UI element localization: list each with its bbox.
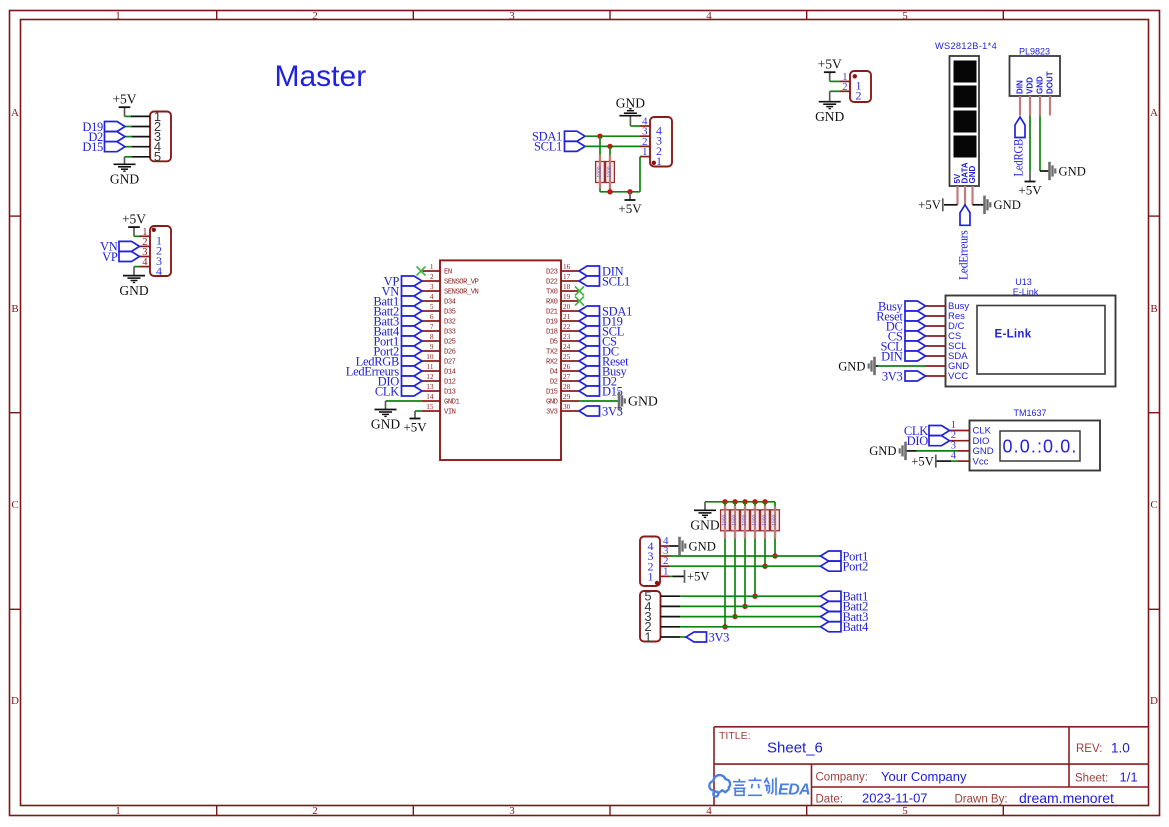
- svg-text:DIN: DIN: [881, 349, 903, 363]
- net label Batt3: [821, 612, 842, 622]
- svg-text:5: 5: [902, 10, 908, 22]
- wire U1 VIN to +5V: [415, 410, 422, 412]
- svg-text:1: 1: [648, 570, 654, 584]
- svg-text:B: B: [11, 303, 18, 315]
- svg-text:+5V: +5V: [818, 57, 842, 72]
- net label SCL (U13): [905, 341, 926, 351]
- power +5V (U1 VIN): [414, 411, 416, 418]
- svg-text:3V3: 3V3: [546, 409, 558, 417]
- svg-text:D18: D18: [546, 329, 558, 337]
- connector P1 5-pin header: [150, 112, 171, 162]
- net label D2 (P1 pin 3): [125, 136, 132, 138]
- power +5V (connector P2 pin 1): [133, 228, 135, 237]
- ground GND (PL9823): [1048, 162, 1051, 180]
- svg-text:A: A: [11, 107, 19, 119]
- svg-text:5: 5: [430, 302, 434, 311]
- net label Port1: [821, 551, 842, 561]
- power +5V (pull-up rail): [629, 192, 631, 200]
- wire +5V rail to P3 pin 1: [639, 157, 641, 192]
- svg-text:D34: D34: [444, 299, 456, 307]
- net label Port1 (U1 left): [402, 336, 423, 346]
- title block: [714, 726, 1149, 728]
- net label Busy (U1 right): [579, 366, 600, 376]
- svg-text:A: A: [1150, 107, 1158, 119]
- svg-text:1: 1: [430, 262, 434, 271]
- svg-text:1000: 1000: [722, 515, 728, 526]
- svg-text:CLK: CLK: [375, 384, 399, 398]
- net label VN (U1 left): [402, 286, 423, 296]
- svg-text:GND: GND: [371, 417, 400, 432]
- resistor R3 1000: [721, 510, 730, 531]
- wire R5 top stub: [744, 502, 746, 506]
- net label Batt3 (U1 left): [402, 316, 423, 326]
- net label DC (U13): [905, 321, 926, 331]
- junction R8: [772, 553, 777, 558]
- power +5V (connector P4 pin 1): [829, 73, 831, 82]
- resistor R6 1000: [751, 510, 760, 531]
- resistor R5 1000: [741, 510, 750, 531]
- net label Batt2: [821, 601, 842, 611]
- svg-text:26: 26: [563, 362, 571, 371]
- svg-text:E-Link: E-Link: [995, 329, 1032, 341]
- net label DIO (TM1637): [929, 436, 950, 446]
- svg-text:1: 1: [644, 629, 651, 644]
- net label DIN (U13): [905, 351, 926, 361]
- svg-text:DIO: DIO: [907, 434, 929, 448]
- svg-text:+5V: +5V: [403, 419, 427, 434]
- svg-text:8: 8: [430, 332, 434, 341]
- ground GND (U13): [873, 357, 876, 375]
- net label VP (U1 left): [402, 276, 423, 286]
- svg-text:D15: D15: [546, 389, 558, 397]
- svg-text:D23: D23: [546, 269, 558, 277]
- net label DC (U1 right): [579, 346, 600, 356]
- net label LedRGB (U1 left): [402, 356, 423, 366]
- wire P5 pin 4 to ground: [670, 545, 679, 547]
- junction R7: [762, 564, 767, 569]
- net label Busy (U13): [905, 301, 926, 311]
- power +5V (P5 pin 1): [684, 570, 686, 583]
- wire TM1637 GND: [907, 450, 917, 452]
- svg-text:1: 1: [642, 146, 648, 158]
- wire R8 bottom to row: [774, 531, 776, 538]
- net label LedErreurs (WS2812B DATA pin): [960, 205, 970, 226]
- svg-text:D22: D22: [546, 279, 558, 287]
- svg-text:Vcc: Vcc: [973, 456, 989, 467]
- svg-text:EDA: EDA: [778, 782, 810, 799]
- net label LedRGB (PL9823 DIN): [1015, 117, 1025, 138]
- resistor R1 1000: [596, 162, 605, 183]
- svg-text:C: C: [1150, 499, 1157, 511]
- svg-text:TITLE:: TITLE:: [719, 730, 751, 742]
- svg-text:Your Company: Your Company: [881, 769, 967, 784]
- wire R1 bottom: [599, 183, 601, 189]
- svg-text:B: B: [1150, 303, 1157, 315]
- wire Port1 (P5 pin 3): [670, 555, 821, 557]
- PL9823 pin stubs: [1019, 96, 1021, 116]
- svg-text:GND: GND: [110, 171, 139, 186]
- svg-text:EN: EN: [444, 269, 452, 277]
- svg-text:D: D: [1150, 695, 1158, 707]
- wire R4 bottom to row: [734, 531, 736, 538]
- wire R3 bottom to row: [724, 531, 726, 538]
- svg-text:14: 14: [426, 392, 434, 401]
- svg-text:VDD: VDD: [1026, 77, 1035, 94]
- svg-text:5: 5: [902, 805, 908, 817]
- svg-text:D: D: [11, 695, 19, 707]
- wire +5V bus (resistor network top): [705, 501, 775, 503]
- svg-text:D19: D19: [546, 319, 558, 327]
- no-connect X on EN pin: [417, 267, 426, 276]
- net label Port2 (U1 left): [402, 346, 423, 356]
- svg-text:Master: Master: [275, 60, 367, 93]
- net label SCL1 (U1 right): [579, 276, 600, 286]
- svg-text:SENSOR_VN: SENSOR_VN: [444, 289, 479, 297]
- wire U1 GND pin29 to ground: [579, 400, 618, 402]
- svg-text:GND: GND: [689, 539, 716, 553]
- net label SDA1 (U1 right): [579, 306, 600, 316]
- svg-text:1000: 1000: [742, 515, 748, 526]
- wire R2 top: [609, 146, 611, 155]
- wire Batt3 (P6 pin 3): [680, 616, 821, 618]
- svg-text:9: 9: [430, 342, 434, 351]
- svg-text:1000: 1000: [597, 166, 603, 177]
- svg-text:GND: GND: [815, 109, 844, 124]
- svg-text:Sheet_6: Sheet_6: [767, 740, 823, 757]
- wire R1 top: [599, 136, 601, 155]
- U1 right pins 16-30: [561, 270, 579, 272]
- svg-text:22: 22: [563, 322, 571, 331]
- junction R2/+5V rail: [607, 189, 612, 194]
- svg-text:4: 4: [142, 257, 148, 268]
- junction bus/R6: [752, 499, 757, 504]
- svg-text:2: 2: [430, 272, 434, 281]
- svg-text:DIN: DIN: [1016, 80, 1025, 94]
- connector P6 5-pin header: [640, 591, 661, 642]
- svg-text:Drawn By:: Drawn By:: [955, 794, 1008, 806]
- svg-text:TX2: TX2: [546, 349, 558, 357]
- wire R4 top stub: [734, 502, 736, 506]
- connector P3 4-pin header: [650, 117, 672, 167]
- svg-text:D2: D2: [550, 379, 558, 387]
- svg-text:2: 2: [842, 82, 847, 93]
- svg-text:30: 30: [563, 402, 571, 411]
- connector P2 4-pin header: [150, 226, 171, 276]
- svg-text:10: 10: [426, 352, 434, 361]
- svg-text:1000: 1000: [607, 166, 613, 177]
- net label D15 (P1 pin 4): [125, 146, 132, 148]
- connector P5 4-pin header: [640, 537, 660, 587]
- svg-text:Date:: Date:: [816, 794, 844, 806]
- wire R7 bottom to row: [764, 531, 766, 538]
- svg-text:1000: 1000: [772, 515, 778, 526]
- resistor R4 1000: [731, 510, 740, 531]
- U1 left pins 1-15: [422, 270, 440, 272]
- wire +5V to P4 pin 1: [830, 80, 840, 82]
- svg-text:+5V: +5V: [687, 570, 710, 584]
- svg-text:GND: GND: [616, 96, 645, 111]
- wire R3 top stub: [724, 502, 726, 506]
- wire P5 pin 1 to +5V: [670, 575, 673, 577]
- resistor R7 1000: [761, 510, 770, 531]
- power +5V (PL9823 VDD): [1029, 171, 1031, 181]
- svg-text:dream.menoret: dream.menoret: [1019, 790, 1114, 806]
- svg-text:U13: U13: [1015, 277, 1032, 287]
- no-connect X on RX0 pin: [575, 297, 584, 306]
- svg-text:1: 1: [115, 805, 121, 817]
- junction bus/R7: [762, 499, 767, 504]
- svg-text:4: 4: [706, 805, 712, 817]
- svg-text:PL9823: PL9823: [1019, 47, 1050, 57]
- svg-text:1000: 1000: [752, 515, 758, 526]
- svg-text:REV:: REV:: [1076, 743, 1102, 755]
- svg-text:GND: GND: [968, 166, 977, 184]
- net label Reset (U1 right): [579, 356, 600, 366]
- svg-text:Sheet:: Sheet:: [1075, 773, 1108, 785]
- power +5V (TM1637 Vcc): [935, 455, 937, 468]
- svg-text:0.0.:0.0.: 0.0.:0.0.: [1003, 437, 1078, 457]
- wire TM1637 Vcc: [937, 460, 952, 462]
- junction bus/R3: [722, 499, 727, 504]
- net label D15 (U1 right): [579, 386, 600, 396]
- svg-text:3: 3: [509, 10, 515, 22]
- svg-text:LedErreurs: LedErreurs: [956, 230, 970, 280]
- net label CLK (TM1637): [929, 426, 950, 436]
- wire Port2 (P5 pin 2): [670, 565, 821, 567]
- net label Port2: [821, 561, 842, 571]
- net label VP (P2 pin 3): [119, 252, 140, 262]
- svg-text:D33: D33: [444, 329, 456, 337]
- wire R6 top stub: [754, 502, 756, 506]
- net label VN (P2 pin 2): [119, 241, 140, 251]
- svg-text:1: 1: [115, 10, 121, 22]
- svg-text:3: 3: [509, 805, 515, 817]
- wire GND to P3 pin 4: [630, 125, 640, 127]
- svg-text:LedRGB: LedRGB: [1011, 139, 1025, 177]
- svg-text:SCL1: SCL1: [602, 274, 630, 288]
- svg-text:21: 21: [563, 312, 571, 321]
- net label D19 (P1 pin 2): [125, 126, 132, 128]
- svg-text:D14: D14: [444, 369, 456, 377]
- display TM1637 body: [970, 421, 1101, 471]
- svg-text:1000: 1000: [762, 515, 768, 526]
- net label Batt1 (U1 left): [402, 296, 423, 306]
- svg-text:+5V: +5V: [1018, 182, 1042, 197]
- logo JLC EDA: [709, 775, 730, 796]
- svg-text:25: 25: [563, 352, 571, 361]
- wire R2 bottom: [609, 183, 611, 189]
- svg-text:C: C: [11, 499, 18, 511]
- display U13 E-Link body: [946, 296, 1116, 387]
- svg-text:GND: GND: [869, 444, 896, 458]
- net label CS (U1 right): [579, 336, 600, 346]
- svg-text:D32: D32: [444, 319, 456, 327]
- svg-text:20: 20: [563, 302, 571, 311]
- wire Batt2 (P6 pin 4): [680, 605, 821, 607]
- svg-text:D26: D26: [444, 349, 456, 357]
- net label Batt2 (U1 left): [402, 306, 423, 316]
- svg-text:12: 12: [426, 372, 434, 381]
- WS2812B pin stubs: [956, 186, 958, 205]
- wire PL9823 VDD to +5V: [1029, 116, 1031, 172]
- svg-text:GND: GND: [994, 198, 1021, 212]
- net label SCL (U1 right): [579, 326, 600, 336]
- wire P1 pin 5 to ground: [125, 156, 133, 158]
- no-connect X on TX0 pin: [575, 287, 584, 296]
- svg-text:D15: D15: [82, 140, 103, 154]
- net label Batt4: [821, 622, 842, 632]
- svg-text:18: 18: [563, 282, 571, 291]
- wire U1 GND1 to ground: [386, 400, 423, 402]
- svg-text:2023-11-07: 2023-11-07: [862, 791, 928, 806]
- svg-text:4: 4: [706, 10, 712, 22]
- svg-text:3V3: 3V3: [882, 369, 903, 383]
- svg-text:28: 28: [563, 382, 571, 391]
- svg-text:SENSOR_VP: SENSOR_VP: [444, 279, 479, 287]
- svg-text:1.0: 1.0: [1111, 741, 1130, 756]
- svg-text:D21: D21: [546, 309, 558, 317]
- svg-text:WS2812B-1*4: WS2812B-1*4: [935, 41, 997, 51]
- net label D19 (U1 right): [579, 316, 600, 326]
- wire Batt1 (P6 pin 5): [680, 595, 821, 597]
- svg-text:4: 4: [430, 292, 434, 301]
- power +5V (WS2812B 5V pin): [944, 204, 958, 206]
- svg-text:RX0: RX0: [546, 299, 558, 307]
- net label Batt1: [821, 591, 842, 601]
- svg-text:27: 27: [563, 372, 571, 381]
- ground GND (P5 pin 4): [678, 537, 681, 555]
- svg-text:4: 4: [156, 264, 162, 278]
- wire P6 pin 1 to 3V3: [680, 636, 686, 638]
- net label DIO (U1 left): [402, 376, 423, 386]
- svg-text:SCL1: SCL1: [534, 140, 562, 154]
- U13 pins and pin names: [926, 305, 946, 307]
- TM1637 pins and pin names: [950, 430, 970, 432]
- svg-text:13: 13: [426, 382, 434, 391]
- net label SCL1: [565, 141, 586, 151]
- net label Reset (U13): [905, 311, 926, 321]
- svg-text:+5V: +5V: [618, 201, 642, 216]
- svg-text:1: 1: [663, 565, 669, 577]
- net label 3V3 (U1 pin30): [579, 406, 600, 416]
- svg-text:D27: D27: [444, 359, 456, 367]
- svg-text:2: 2: [312, 805, 318, 817]
- svg-text:2: 2: [856, 89, 862, 103]
- connector P4 2-pin header: [850, 71, 871, 102]
- svg-text:7: 7: [430, 322, 434, 331]
- net label 3V3 (U13 VCC): [905, 371, 926, 381]
- junction SCL1/R2: [607, 144, 612, 149]
- svg-text:+5V: +5V: [122, 212, 146, 227]
- wire R8 top stub: [774, 507, 776, 511]
- svg-text:1/1: 1/1: [1120, 770, 1138, 785]
- svg-text:19: 19: [563, 292, 571, 301]
- svg-text:D25: D25: [444, 339, 456, 347]
- svg-text:GND: GND: [1059, 164, 1086, 178]
- wire R6 bottom to row: [754, 531, 756, 538]
- net label Batt4 (U1 left): [402, 326, 423, 336]
- svg-text:1: 1: [656, 154, 662, 168]
- wire +5V to P1 pin 1: [125, 115, 133, 117]
- junction bus/R4: [732, 499, 737, 504]
- svg-text:+5V: +5V: [918, 198, 941, 212]
- resistor R2 1000: [606, 162, 615, 183]
- svg-text:TM1637: TM1637: [1013, 408, 1046, 418]
- svg-text:3: 3: [430, 282, 434, 291]
- ground GND (connector P1): [124, 157, 126, 164]
- junction R6: [752, 594, 757, 599]
- wire WS2812B GND pin: [973, 204, 984, 206]
- junction R3: [722, 624, 727, 629]
- net label D2 (U1 right): [579, 376, 600, 386]
- svg-text:GND: GND: [119, 283, 148, 298]
- ground GND (network bus left): [704, 502, 706, 510]
- wire P2 pin 4 to ground: [134, 266, 140, 268]
- svg-text:24: 24: [563, 342, 571, 351]
- svg-text:+5V: +5V: [911, 454, 934, 468]
- svg-text:23: 23: [563, 332, 571, 341]
- svg-text:Port2: Port2: [843, 559, 869, 573]
- svg-text:DOUT: DOUT: [1046, 71, 1055, 94]
- ground GND (connector P2): [133, 267, 135, 276]
- net label DIN (U1 right): [579, 266, 600, 276]
- junction bus/R5: [742, 499, 747, 504]
- svg-text:6: 6: [430, 312, 434, 321]
- svg-text:2: 2: [312, 10, 318, 22]
- ground GND (connector P4): [829, 91, 831, 101]
- svg-text:29: 29: [563, 392, 571, 401]
- ground GND (TM1637): [904, 442, 907, 460]
- junction R4: [732, 614, 737, 619]
- svg-text:VP: VP: [102, 250, 118, 264]
- LED module WS2812B-1*4 body: [950, 56, 980, 186]
- wire SCL1 to P3 pin 2: [585, 145, 640, 147]
- wire R7 top stub: [764, 502, 766, 506]
- svg-text:11: 11: [426, 362, 433, 371]
- resistor R8 1000: [771, 510, 780, 531]
- svg-text:D5: D5: [550, 339, 558, 347]
- svg-text:D35: D35: [444, 309, 456, 317]
- LED PL9823 body: [1010, 56, 1061, 96]
- svg-text:RX2: RX2: [546, 359, 558, 367]
- net label CS (U13): [905, 331, 926, 341]
- net label SDA1: [565, 131, 586, 141]
- ground GND (U1 GND1): [385, 401, 387, 409]
- svg-text:D12: D12: [444, 379, 456, 387]
- svg-text:3V3: 3V3: [602, 404, 623, 418]
- wire U13 GND: [876, 365, 879, 367]
- ground GND (U1 pin29): [618, 392, 621, 410]
- svg-text:Batt4: Batt4: [843, 620, 870, 634]
- svg-text:4: 4: [951, 451, 957, 462]
- svg-text:15: 15: [426, 402, 434, 411]
- junction R5: [742, 604, 747, 609]
- svg-text:D13: D13: [444, 389, 456, 397]
- wire SDA1 to P3 pin 3: [585, 135, 640, 137]
- net label LedErreurs (U1 left): [402, 366, 423, 376]
- wire R5 bottom to row: [744, 531, 746, 538]
- wire P4 pin 2 to ground: [830, 90, 840, 92]
- ground GND (connector P3 pin 4): [629, 116, 631, 126]
- wire +5V to P2 pin 1: [134, 235, 140, 237]
- svg-text:D4: D4: [550, 369, 558, 377]
- svg-text:GND: GND: [838, 359, 865, 373]
- wire PL9823 GND pin: [1039, 116, 1041, 172]
- svg-text:1000: 1000: [732, 515, 738, 526]
- junction +5V stem: [627, 189, 632, 194]
- net label 3V3 (P6 pin 1): [686, 632, 707, 642]
- svg-text:Company:: Company:: [816, 772, 868, 784]
